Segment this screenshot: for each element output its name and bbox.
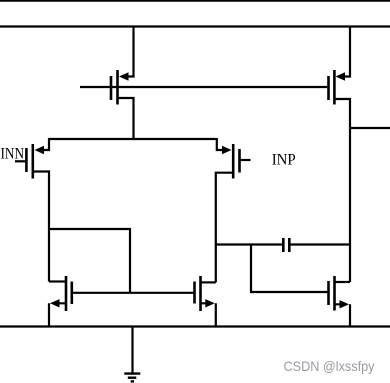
wire M7 drain — [336, 281, 351, 283]
wire VDD rail to M3 source — [127, 27, 134, 77]
transistor M5 gate bar — [71, 282, 74, 305]
transistor M7 gate bar (bottom-right NMOS) — [327, 281, 330, 305]
wire M2 drain down to M6 drain — [216, 173, 232, 283]
wire tail to M2 source — [217, 138, 222, 150]
transistor M4 channel bar (top-right PMOS) — [333, 70, 336, 105]
ground stem — [131, 327, 133, 374]
wire node down to M7 gate — [251, 245, 327, 293]
arrow M1 source (points into channel) — [35, 146, 45, 154]
wire VDD rail — [0, 25, 390, 27]
transistor M4 gate bar — [327, 76, 330, 100]
transistor M2 channel bar (INP input PMOS) — [232, 144, 235, 179]
arrow M7 source (points away from channel) — [340, 300, 350, 308]
transistor M3 gate bar — [110, 76, 113, 100]
arrow M4 source (points into channel) — [336, 72, 346, 80]
transistor M6 gate bar (bottom-middle NMOS) — [193, 282, 196, 304]
wire capacitor right plate to output node — [290, 243, 350, 245]
svg-text:CSDN @lxssfpy: CSDN @lxssfpy — [284, 358, 375, 374]
wire M7 source to VSS rail — [336, 304, 351, 326]
arrow M6 source (points away from channel) — [205, 299, 215, 307]
transistor M3 channel bar (top-left PMOS) — [116, 70, 119, 105]
svg-text:INN: INN — [1, 146, 25, 163]
arrow M3 source (points into channel) — [119, 72, 129, 80]
wire M3 drain to tail node — [119, 98, 134, 139]
transistor M2 gate bar — [238, 149, 241, 173]
capacitor left plate — [282, 238, 285, 252]
ground bar 1 — [124, 372, 140, 374]
ground bar 3 — [131, 380, 134, 382]
wire output stub to right edge — [350, 127, 390, 129]
transistor M1 gate bar — [25, 148, 28, 172]
wire M5 source to VSS rail — [49, 303, 65, 326]
wire M6 drain — [202, 281, 216, 283]
wire M2 gate stub — [240, 159, 251, 161]
transistor M1 channel bar (INN input PMOS) — [31, 144, 34, 179]
transistor M6 channel bar — [199, 276, 202, 311]
wire VDD rail to M4 source — [344, 27, 350, 77]
wire VSS rail — [0, 325, 390, 327]
wire M6 source to VSS rail — [202, 303, 216, 326]
wire M4 drain to output node — [335, 99, 350, 282]
transistor M7 channel bar — [333, 276, 336, 311]
arrow M5 source (points away from channel) — [50, 299, 60, 307]
wire M5 drain — [49, 280, 65, 282]
wire M3 gate to M4 gate (bias line) — [80, 86, 327, 88]
capacitor right plate — [288, 238, 291, 252]
transistor M5 channel bar (bottom-left NMOS) — [65, 276, 68, 311]
wire M1 gate stub — [15, 160, 26, 162]
wire node to capacitor left plate — [216, 243, 283, 245]
wire tail node (common sources of M1 M2) — [49, 138, 217, 140]
wire tail to M1 source — [44, 138, 49, 150]
wire M5 gate to M6 gate — [73, 292, 194, 294]
wire M1 drain to mirror gates node — [49, 229, 130, 293]
arrow M2 source (points into channel) — [222, 146, 232, 154]
wire M1 drain down to M5 drain — [34, 172, 49, 282]
ground bar 2 — [128, 377, 137, 379]
svg-text:INP: INP — [272, 151, 296, 168]
